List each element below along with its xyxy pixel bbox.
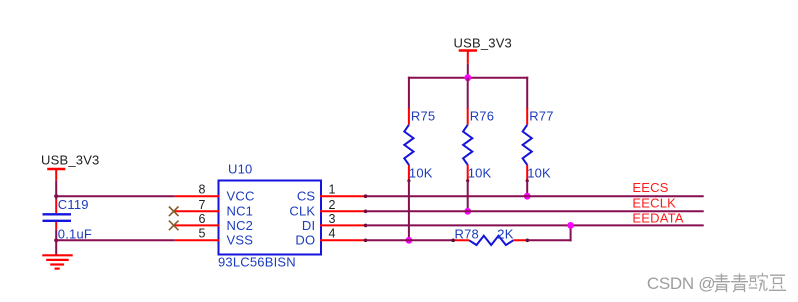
node T-junction VCC branch <box>54 194 58 198</box>
R78 right end dot <box>526 239 530 243</box>
svg-text:DI: DI <box>302 218 315 233</box>
svg-text:10K: 10K <box>527 166 551 181</box>
svg-text:10K: 10K <box>468 166 492 181</box>
wire: riser to EEDATA <box>570 225 572 241</box>
svg-text:1: 1 <box>329 183 336 197</box>
wire: R78 to riser <box>527 239 571 241</box>
svg-text:0.1uF: 0.1uF <box>58 227 92 242</box>
svg-text:C119: C119 <box>58 197 89 212</box>
svg-text:EECLK: EECLK <box>632 195 676 210</box>
resistor R75 <box>404 108 435 181</box>
wire: EECS net <box>366 195 704 197</box>
svg-text:6: 6 <box>199 212 206 226</box>
pin 7 stub <box>174 210 219 212</box>
wire: DO to R78 <box>366 239 454 241</box>
node T-junction VSS branch <box>54 238 58 242</box>
pin 4 stub <box>320 239 366 241</box>
resistor R77 <box>523 108 554 181</box>
R78 left end dot <box>451 239 455 243</box>
no-connect X pin 6 <box>169 221 179 231</box>
wire: bus down to R76 <box>467 78 469 109</box>
svg-text:R77: R77 <box>529 109 553 124</box>
svg-text:NC2: NC2 <box>227 218 254 233</box>
svg-text:R75: R75 <box>411 109 435 124</box>
svg-text:CLK: CLK <box>289 204 315 219</box>
node junction top bus <box>464 74 471 81</box>
svg-text:VSS: VSS <box>227 233 254 248</box>
wire: left VCC horizontal <box>56 195 175 197</box>
pin 2 stub <box>320 210 366 212</box>
watermark glyph wan <box>749 273 768 291</box>
pin 3 stub <box>320 224 366 226</box>
pin 5 stub <box>175 239 219 241</box>
pin 1 stub <box>320 195 366 197</box>
wire: R75 to DO line <box>408 180 410 240</box>
wire: left VSS horizontal <box>56 239 175 241</box>
no-connect X pin 7 <box>169 207 179 217</box>
watermark glyph qing2 <box>731 274 748 293</box>
svg-text:10K: 10K <box>409 166 433 181</box>
wire: bus down to R77 <box>526 77 528 109</box>
svg-text:2K: 2K <box>497 226 513 241</box>
R76 pin end dot <box>466 179 469 182</box>
svg-text:EECS: EECS <box>632 180 668 195</box>
svg-text:93LC56BISN: 93LC56BISN <box>218 255 296 270</box>
svg-text:7: 7 <box>199 198 206 212</box>
svg-text:U10: U10 <box>228 162 252 177</box>
pin 4 end dot <box>364 239 368 243</box>
svg-text:5: 5 <box>199 227 206 241</box>
svg-text:2: 2 <box>329 198 336 212</box>
svg-text:R78: R78 <box>455 226 479 241</box>
wire: left power stem <box>55 181 57 200</box>
pin 8 stub <box>175 195 219 197</box>
node junction riser/EEDATA <box>567 222 574 229</box>
pin 3 end dot <box>364 224 368 228</box>
pin 1 end dot <box>364 194 368 198</box>
pin 2 end dot <box>364 210 368 214</box>
svg-text:USB_3V3: USB_3V3 <box>454 36 513 51</box>
wire: R76 to EECLK line <box>467 180 469 211</box>
power symbol USB_3V3 (left) <box>41 153 100 181</box>
capacitor C119 <box>43 197 93 242</box>
R77 pin end dot <box>526 179 529 182</box>
power symbol USB_3V3 (top) <box>454 36 513 64</box>
svg-text:EEDATA: EEDATA <box>632 211 683 226</box>
IC U10 93LC56BISN <box>218 162 321 270</box>
node junction R77/EECS <box>524 193 531 200</box>
svg-text:VCC: VCC <box>227 189 255 204</box>
R75 pin end dot <box>407 179 410 182</box>
wire: EECLK net <box>366 210 704 212</box>
svg-text:R76: R76 <box>470 109 494 124</box>
svg-text:NC1: NC1 <box>227 204 254 219</box>
ground <box>42 255 72 268</box>
wire: power stem to top bus <box>467 64 469 78</box>
node junction R76/EECLK <box>464 208 471 215</box>
svg-text:CSDN @: CSDN @ <box>647 274 715 293</box>
wire: EEDATA net <box>366 224 704 226</box>
svg-text:8: 8 <box>199 183 206 197</box>
resistor R78 <box>453 226 527 245</box>
svg-text:3: 3 <box>329 212 336 226</box>
wire: cap to ground <box>55 230 57 255</box>
watermark glyph qing1 <box>713 274 730 293</box>
node junction R75/DO <box>406 237 413 244</box>
svg-text:DO: DO <box>295 233 315 248</box>
resistor R76 <box>463 108 494 181</box>
svg-text:CS: CS <box>297 189 316 204</box>
wire: R77 to EECS line <box>526 180 528 196</box>
wire: bus down to R75 <box>408 77 410 109</box>
svg-text:4: 4 <box>329 227 336 241</box>
svg-text:USB_3V3: USB_3V3 <box>41 153 100 168</box>
watermark CSDN <box>647 274 716 294</box>
watermark glyph dou <box>769 275 786 290</box>
wire: top bus <box>408 77 528 79</box>
pin 6 stub <box>174 224 219 226</box>
